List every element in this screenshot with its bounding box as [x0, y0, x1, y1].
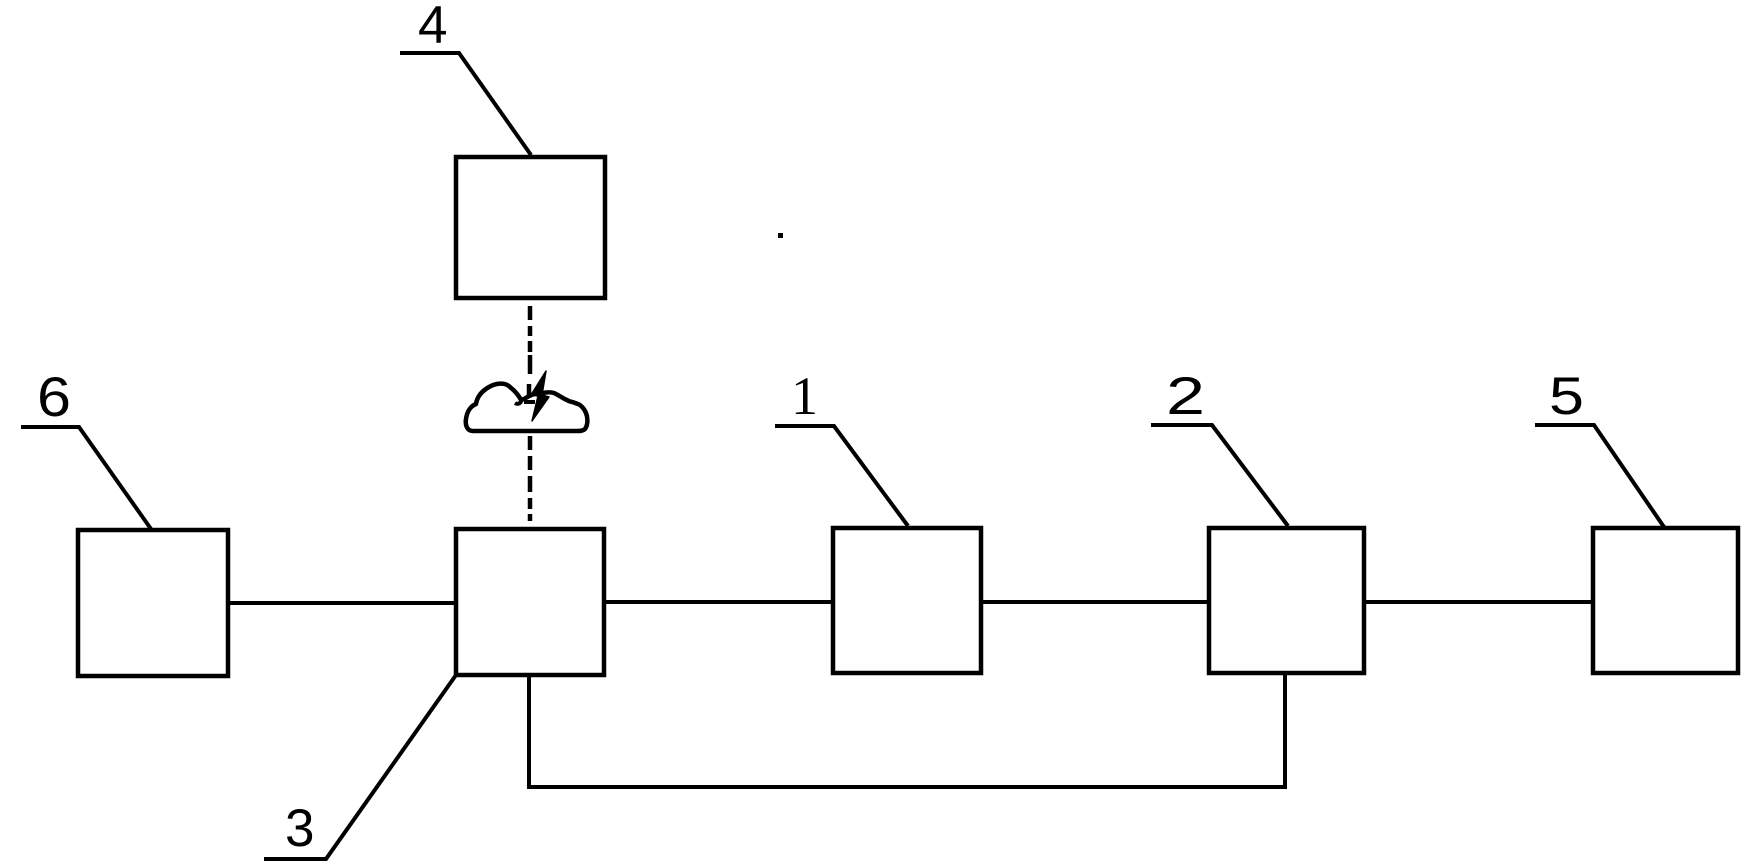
leader line for 4 [400, 53, 531, 155]
leader line for 2 [1151, 425, 1288, 526]
svg-text:6: 6 [37, 365, 71, 428]
block 3 (center-left box) [456, 529, 604, 675]
svg-text:2: 2 [1166, 367, 1205, 426]
cloud ledge bar under bolt [524, 400, 535, 404]
cloud [466, 384, 588, 431]
svg-text:4: 4 [418, 0, 447, 55]
block 5 (far right box) [1593, 528, 1738, 673]
leader line for 6 [21, 427, 151, 529]
wire 1-2 [981, 600, 1209, 604]
wireless dashed link upper [528, 306, 533, 374]
wireless dashed link lower [528, 436, 533, 521]
leader line for 3 [264, 675, 456, 859]
speck [778, 233, 783, 238]
svg-text:3: 3 [285, 799, 314, 858]
block 2 [1209, 528, 1364, 673]
leader line for 5 [1535, 425, 1664, 527]
leader line for 1 [775, 426, 908, 526]
cloud saddle curl [515, 399, 521, 404]
wire 2-5 [1364, 600, 1593, 604]
wire 3-1 [604, 600, 833, 604]
block 6 (far left box) [78, 530, 228, 676]
wire 3-2 bottom loop [529, 673, 1285, 787]
block 4 (top box) [456, 157, 605, 298]
wire 6-3 [228, 601, 456, 605]
dash fragment above saddle [527, 384, 532, 396]
block 1 [833, 528, 981, 673]
svg-text:5: 5 [1549, 367, 1584, 426]
svg-text:1: 1 [791, 366, 818, 426]
lightning bolt [531, 371, 549, 421]
